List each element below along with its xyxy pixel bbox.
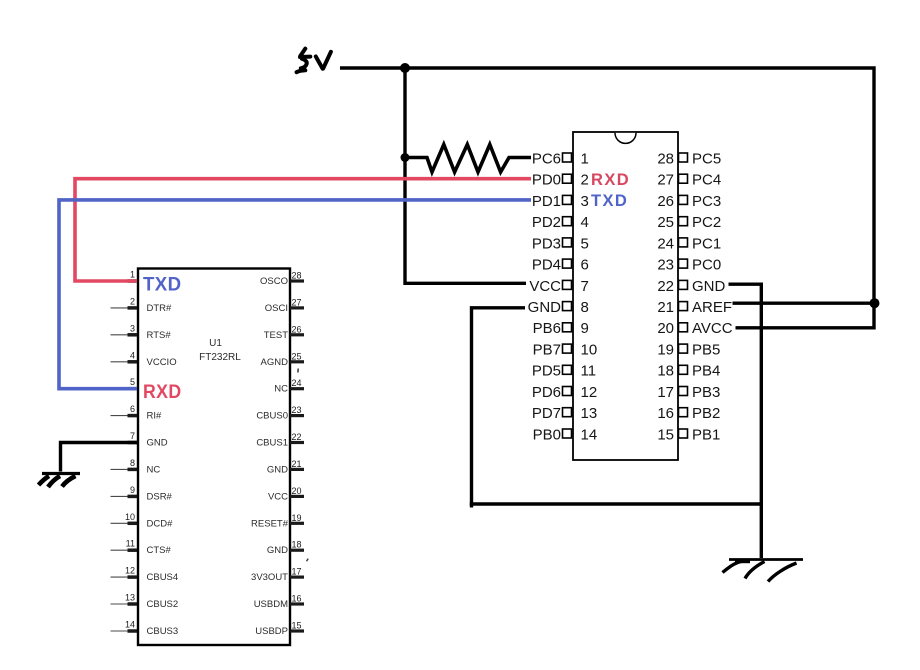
stray mark near U1 pin 18 [307,559,309,562]
svg-text:PB3: PB3 [692,384,720,401]
svg-text:24: 24 [657,235,674,252]
svg-text:PD0: PD0 [532,172,561,189]
svg-text:PB0: PB0 [533,426,561,443]
svg-text:PD2: PD2 [532,214,561,231]
ground (left, hand-drawn, at U1 GND) [39,474,81,488]
svg-text:8: 8 [130,458,135,468]
svg-text:PD7: PD7 [532,405,561,422]
svg-text:GND: GND [692,278,726,295]
wire MCU GND pin 8 down and across to right ground [472,308,526,508]
junction node: AREF wire on 5V vertical [870,298,880,308]
svg-text:27: 27 [657,172,674,189]
stray mark near U1 pin 25 [297,369,300,373]
MCU pin-1 notch [615,133,636,144]
svg-text:2: 2 [130,296,135,306]
svg-text:PD6: PD6 [532,384,561,401]
svg-text:23: 23 [292,405,302,415]
junction node: VCC drop to resistor R1 [401,153,410,162]
ground (right, hand-drawn, at MCU GND) [723,560,804,582]
svg-text:19: 19 [292,513,302,523]
svg-text:24: 24 [292,378,302,388]
svg-text:3: 3 [581,193,589,210]
svg-text:22: 22 [657,278,674,295]
svg-text:RXD: RXD [591,171,630,189]
svg-text:DCD#: DCD# [147,518,174,529]
svg-text:CBUS4: CBUS4 [147,572,179,583]
svg-text:7: 7 [130,431,135,441]
svg-text:GND: GND [267,545,288,556]
U1 right pin name labels [251,276,289,637]
node 5V label (handwritten "5v") [297,49,331,73]
svg-text:CBUS0: CBUS0 [256,411,288,422]
svg-text:1: 1 [581,150,589,167]
svg-text:2: 2 [581,172,589,189]
svg-text:GND: GND [528,299,562,316]
svg-text:PC4: PC4 [692,172,721,189]
svg-text:NC: NC [147,464,161,475]
svg-text:5: 5 [130,377,135,387]
svg-text:DTR#: DTR# [147,303,173,314]
svg-text:12: 12 [581,384,598,401]
svg-text:26: 26 [657,193,674,210]
svg-text:25: 25 [292,351,302,361]
svg-text:PB1: PB1 [692,426,720,443]
svg-text:USBDM: USBDM [254,599,288,610]
svg-text:27: 27 [292,297,302,307]
svg-text:VCC: VCC [529,278,561,295]
svg-text:13: 13 [581,405,598,422]
op-amp U1 body: FT232RL IC outline [138,269,290,646]
U1 refdes and value text [199,338,241,363]
svg-text:10: 10 [125,512,135,522]
MCU right pin pads (squares, pins 28-15) [679,153,688,438]
svg-text:21: 21 [292,459,302,469]
svg-text:16: 16 [657,405,674,422]
U1 left pin name labels [147,303,179,637]
svg-text:FT232RL: FT232RL [199,352,241,363]
svg-text:11: 11 [126,539,135,549]
svg-text:3: 3 [130,323,135,333]
svg-text:10: 10 [581,342,598,359]
MCU inside pin numbers 1-14 (left column) [581,150,598,443]
svg-text:U1: U1 [209,338,222,349]
svg-text:NC: NC [274,384,288,395]
svg-text:PC2: PC2 [692,214,721,231]
svg-text:TXD: TXD [143,275,182,296]
svg-text:6: 6 [581,257,589,274]
U1 right pin stubs (pins 28-15) [290,281,304,631]
svg-text:OSCO: OSCO [260,276,288,287]
svg-text:19: 19 [657,342,674,359]
svg-text:RESET#: RESET# [251,518,289,529]
svg-text:28: 28 [657,150,674,167]
wire AREF pin 21 to 5V rail [733,302,875,305]
svg-text:11: 11 [581,363,597,380]
MCU right pin name labels [692,150,733,443]
svg-text:9: 9 [130,485,135,495]
svg-text:PD1: PD1 [532,193,561,210]
svg-text:PC1: PC1 [692,235,721,252]
svg-text:28: 28 [292,271,302,281]
svg-text:RI#: RI# [147,411,163,422]
svg-text:PB5: PB5 [692,342,720,359]
svg-text:PB7: PB7 [533,342,561,359]
svg-text:PD5: PD5 [532,363,561,380]
wire MCU GND pin 22 right and down to ground [729,284,762,558]
svg-text:18: 18 [657,363,674,380]
svg-text:CTS#: CTS# [147,545,172,556]
svg-text:14: 14 [581,426,598,443]
svg-text:3V3OUT: 3V3OUT [251,572,288,583]
svg-text:GND: GND [147,438,168,449]
svg-text:7: 7 [581,278,589,295]
svg-text:PD3: PD3 [532,235,561,252]
svg-text:CBUS2: CBUS2 [147,599,179,610]
svg-text:26: 26 [292,324,302,334]
wire bottom ground bus [470,502,762,505]
svg-text:AGND: AGND [261,357,289,368]
svg-text:9: 9 [581,320,589,337]
svg-text:PC3: PC3 [692,193,721,210]
svg-text:CBUS3: CBUS3 [147,626,179,637]
svg-text:20: 20 [657,320,674,337]
svg-text:15: 15 [657,426,674,443]
svg-text:VCCIO: VCCIO [147,357,177,368]
svg-text:PC0: PC0 [692,257,721,274]
MCU (ATmega 28-pin DIP) body [573,132,678,460]
svg-text:22: 22 [292,432,302,442]
svg-text:17: 17 [292,567,302,577]
junction node: 5V rail to VCC drop [400,63,410,73]
wire U1 GND pin 7 to ground [61,443,138,472]
svg-text:RXD: RXD [143,382,182,403]
MCU left pin name labels [528,150,562,443]
svg-text:PB2: PB2 [692,405,720,422]
svg-text:CBUS1: CBUS1 [256,438,288,449]
svg-text:15: 15 [292,621,302,631]
svg-text:TXD: TXD [591,192,628,210]
svg-text:5: 5 [581,235,589,252]
wire 5V rail: from 5v label across top, down right side to AVCC pin 20 [340,68,874,328]
svg-text:21: 21 [657,299,674,316]
svg-text:DSR#: DSR# [147,491,173,502]
resistor R1 (pull-up to PC6/RESET pin 1) [405,145,531,173]
svg-text:1: 1 [130,270,135,280]
svg-text:PC6: PC6 [532,150,561,167]
svg-text:12: 12 [125,566,135,576]
svg-text:PB6: PB6 [533,320,561,337]
svg-text:VCC: VCC [268,491,288,502]
svg-text:23: 23 [657,257,674,274]
svg-text:4: 4 [130,350,135,360]
wire RXD net (red): MCU PD0 pin 2 to U1 TXD pin 1 [75,179,531,281]
svg-text:17: 17 [657,384,674,401]
svg-text:OSCI: OSCI [265,303,288,314]
svg-text:8: 8 [581,299,589,316]
svg-text:PC5: PC5 [692,150,721,167]
wire VCC drop: 5V rail down to VCC pin 7 of MCU [405,68,526,283]
svg-text:GND: GND [267,464,288,475]
wire TXD net (blue): MCU PD1 pin 3 to U1 RXD pin 5 [59,200,531,389]
MCU inside pin numbers 28-15 (right column) [657,150,674,443]
svg-text:AREF: AREF [692,299,732,316]
svg-text:AVCC: AVCC [692,320,733,337]
svg-text:PD4: PD4 [532,257,561,274]
svg-text:13: 13 [125,593,135,603]
svg-text:TEST: TEST [264,330,288,341]
svg-text:25: 25 [657,214,674,231]
svg-text:RTS#: RTS# [147,330,172,341]
svg-text:PB4: PB4 [692,363,720,380]
svg-text:20: 20 [292,486,302,496]
svg-text:6: 6 [130,404,135,414]
svg-text:16: 16 [292,594,302,604]
svg-text:4: 4 [581,214,589,231]
svg-text:14: 14 [125,620,135,630]
U1 left pin numbers 1-14 [125,270,135,630]
U1 right pin numbers 28-15 [292,271,302,631]
svg-text:18: 18 [292,540,302,550]
MCU left pin pads (squares, pins 1-14) [563,153,572,438]
svg-text:USBDP: USBDP [255,626,288,637]
U1 left pin stubs (pins 1-14) [111,281,138,631]
